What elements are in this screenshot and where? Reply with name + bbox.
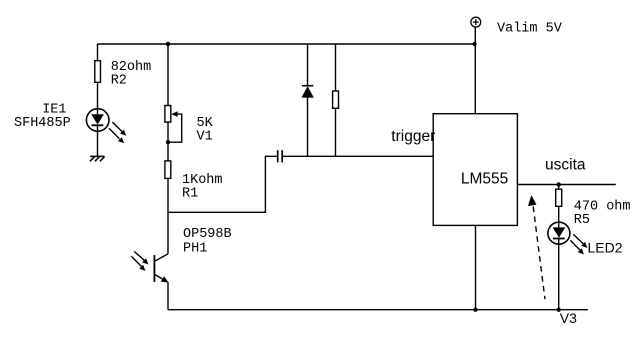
svg-text:LM555: LM555 (461, 171, 508, 188)
wire resistor branch from rail (335, 44, 337, 91)
LED2 emission arrow 1 (573, 234, 587, 248)
junction dot rail / power / LM555 (472, 42, 476, 46)
wire R5 to LED2 (558, 206, 560, 222)
op-amp U1 LM555 box (433, 114, 517, 226)
wire LM555 output (517, 184, 615, 186)
junction dot bottom rail / LM555 (473, 308, 477, 312)
resistor R5 (556, 189, 562, 206)
wire R1 to PH1 collector (167, 178, 169, 254)
wire bottom rail (168, 309, 588, 311)
potentiometer V1 body (165, 106, 171, 123)
wire LED IE1 to ground (97, 131, 99, 156)
svg-text:V3: V3 (560, 310, 577, 326)
wire top rail (98, 43, 475, 45)
wire diode to trigger line (307, 98, 309, 157)
svg-text:V1: V1 (197, 130, 213, 145)
PH1 light arrow 1 (134, 251, 148, 264)
wire rail to potentiometer V1 (167, 44, 169, 106)
capacitor C1 (278, 150, 283, 162)
wire branch to capacitor C (168, 156, 277, 212)
wire left branch down from rail to R2 (97, 44, 99, 61)
transistor Q1 PH1 (154, 254, 168, 283)
wire diode branch from rail (307, 44, 309, 86)
power symbol Valim 5V (471, 17, 481, 27)
LED LED2 symbol (548, 222, 570, 244)
wire power to rail (474, 27, 476, 44)
svg-text:Valim 5V: Valim 5V (497, 22, 563, 37)
wire resistor to trigger line (335, 108, 337, 156)
wire output to R5 (558, 185, 560, 190)
svg-text:PH1: PH1 (183, 242, 207, 257)
LED IE1 emission arrow 2 (109, 128, 124, 143)
junction dot V1 wiper (166, 140, 170, 144)
diode D1 (301, 86, 313, 98)
svg-text:LED2: LED2 (588, 240, 623, 256)
ground (90, 156, 105, 161)
wire rail to LM555 Vcc (474, 44, 476, 114)
svg-text:SFH485P: SFH485P (14, 116, 71, 131)
PH1 light arrow 2 (131, 256, 145, 271)
wire V1 to R1 (167, 122, 169, 161)
svg-text:trigger: trigger (391, 128, 435, 145)
svg-text:OP598B: OP598B (183, 227, 232, 242)
svg-text:uscita: uscita (545, 157, 586, 174)
potentiometer V1 wiper arrow (168, 111, 182, 142)
junction dot output / R5 (557, 182, 561, 186)
svg-text:R5: R5 (574, 213, 590, 228)
svg-text:R1: R1 (182, 187, 198, 202)
junction dot bottom rail / LED2 (557, 308, 561, 312)
wire capacitor to LM555 trigger pin (283, 155, 433, 157)
wire R2 to LED IE1 (97, 82, 99, 108)
wire LED2 to bottom rail (558, 244, 560, 310)
resistor R2 (95, 61, 101, 83)
LED IE1 symbol (86, 109, 109, 132)
resistor R3 (333, 91, 339, 108)
dashed feedback arrow (528, 195, 545, 299)
LED IE1 emission arrow 1 (112, 122, 126, 136)
svg-text:R2: R2 (111, 74, 127, 89)
junction dot top rail / V1 branch (166, 42, 170, 46)
wire LM555 ground pin (475, 225, 477, 309)
resistor R1 (165, 161, 171, 179)
wire PH1 emitter to bottom rail corner (167, 282, 169, 310)
LED2 emission arrow 2 (570, 240, 584, 254)
